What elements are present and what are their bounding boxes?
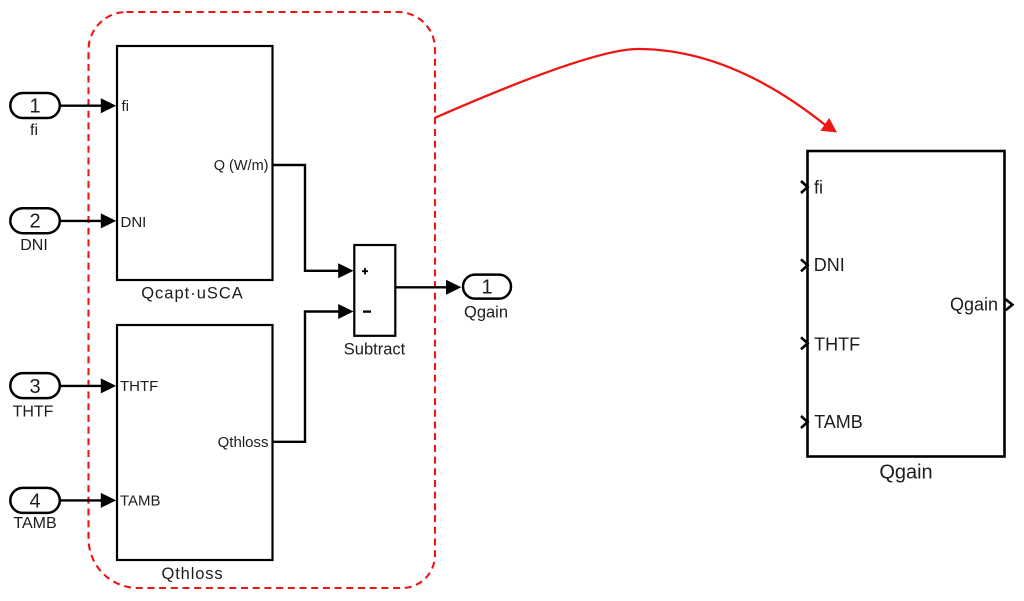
wire Qthloss to Subtract minus bbox=[273, 312, 340, 442]
port chevron DNI bbox=[801, 259, 808, 271]
svg-text:2: 2 bbox=[29, 211, 40, 233]
svg-text:TAMB: TAMB bbox=[120, 493, 161, 510]
wire port2 to DNI bbox=[60, 220, 102, 222]
output chevron Qgain bbox=[1006, 299, 1013, 310]
svg-text:1: 1 bbox=[29, 95, 40, 117]
outport 1 oval bbox=[463, 275, 511, 299]
inport 1 oval bbox=[10, 93, 60, 118]
svg-text:TAMB: TAMB bbox=[13, 515, 56, 532]
port chevron TAMB bbox=[801, 416, 808, 428]
block Qthloss bbox=[117, 325, 273, 560]
red annotation curve bbox=[435, 49, 825, 125]
red dashed subsystem boundary bbox=[89, 12, 436, 588]
svg-text:Qgain: Qgain bbox=[950, 295, 998, 315]
port chevron THTF bbox=[801, 337, 808, 349]
wire port1 to fi bbox=[60, 104, 102, 106]
svg-text:DNI: DNI bbox=[20, 237, 48, 254]
wire port3 to THTF bbox=[60, 385, 102, 387]
svg-text:Qthloss: Qthloss bbox=[162, 565, 224, 583]
block Qgain (subsystem) bbox=[808, 151, 1005, 457]
svg-text:TAMB: TAMB bbox=[814, 412, 863, 432]
svg-text:1: 1 bbox=[481, 276, 492, 298]
inport 3 oval bbox=[10, 373, 60, 398]
svg-text:Q (W/m): Q (W/m) bbox=[214, 158, 269, 174]
svg-text:fi: fi bbox=[814, 178, 823, 198]
svg-text:Subtract: Subtract bbox=[344, 341, 406, 359]
block Subtract bbox=[354, 245, 395, 336]
svg-text:THTF: THTF bbox=[814, 335, 860, 355]
svg-text:THTF: THTF bbox=[13, 404, 54, 421]
svg-text:DNI: DNI bbox=[814, 255, 845, 275]
svg-text:THTF: THTF bbox=[120, 378, 158, 395]
svg-text:3: 3 bbox=[29, 376, 40, 398]
wire Q (W/m) to Subtract plus bbox=[273, 165, 340, 271]
svg-text:fi: fi bbox=[122, 98, 130, 115]
svg-text:Qcapt·uSCA: Qcapt·uSCA bbox=[141, 285, 244, 303]
inport 2 oval bbox=[10, 208, 60, 233]
plus sign bbox=[362, 268, 368, 275]
red arrowhead bbox=[820, 118, 837, 133]
svg-text:Qgain: Qgain bbox=[879, 462, 932, 484]
wire Subtract to outport bbox=[396, 286, 448, 288]
svg-text:DNI: DNI bbox=[121, 214, 147, 231]
port chevron fi bbox=[801, 181, 808, 193]
wire port4 to TAMB bbox=[60, 499, 102, 501]
svg-text:Qgain: Qgain bbox=[464, 304, 508, 322]
inport 4 oval bbox=[10, 488, 60, 513]
svg-text:fi: fi bbox=[30, 122, 38, 139]
minus sign bbox=[363, 310, 371, 312]
svg-text:Qthloss: Qthloss bbox=[218, 434, 269, 451]
block Qcapt-uSCA bbox=[117, 46, 273, 280]
svg-text:4: 4 bbox=[29, 490, 40, 512]
